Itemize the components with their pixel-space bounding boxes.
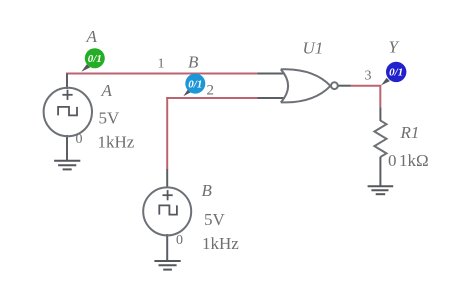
svg-text:1kHz: 1kHz	[98, 133, 135, 152]
svg-text:A: A	[101, 81, 113, 100]
svg-text:1kΩ: 1kΩ	[399, 151, 429, 170]
wire net 1 (A to U1 input)	[66, 73, 258, 75]
svg-text:0/1: 0/1	[188, 78, 202, 90]
svg-text:1kHz: 1kHz	[202, 234, 239, 253]
svg-text:3: 3	[365, 69, 372, 84]
wire net 2 horizontal segment (corner to U1 input)	[166, 97, 257, 99]
probe Y (dark blue logic probe)	[381, 62, 406, 86]
wire net 2 vertical segment (down to source B)	[166, 97, 168, 169]
svg-text:0/1: 0/1	[88, 53, 102, 65]
svg-text:0: 0	[176, 233, 183, 248]
svg-text:2: 2	[207, 83, 215, 99]
svg-text:B: B	[202, 181, 213, 200]
probe B (blue logic probe)	[183, 74, 205, 97]
ground (source B)	[154, 261, 180, 270]
resistor R1	[374, 108, 386, 187]
voltage source V_B (square wave source)	[143, 169, 191, 261]
ground (R1)	[368, 186, 394, 194]
svg-text:5V: 5V	[204, 210, 226, 229]
svg-text:Y: Y	[389, 38, 400, 57]
probe A (green logic probe)	[81, 48, 105, 72]
svg-text:0/1: 0/1	[389, 67, 403, 79]
svg-text:0: 0	[76, 132, 83, 147]
svg-text:U1: U1	[303, 39, 324, 58]
ground (source A)	[54, 161, 80, 170]
wire net 3 horizontal segment (U1 output to node Y)	[350, 85, 381, 87]
svg-text:0: 0	[388, 151, 397, 170]
svg-text:B: B	[188, 53, 199, 72]
svg-text:5V: 5V	[99, 109, 121, 128]
wire net 3 vertical segment (node Y down to R1)	[379, 86, 381, 108]
svg-text:R1: R1	[400, 123, 420, 142]
voltage source V_A (square wave source)	[44, 74, 92, 162]
svg-text:A: A	[86, 27, 98, 46]
NOR gate U1	[258, 69, 351, 102]
svg-text:1: 1	[158, 57, 165, 72]
